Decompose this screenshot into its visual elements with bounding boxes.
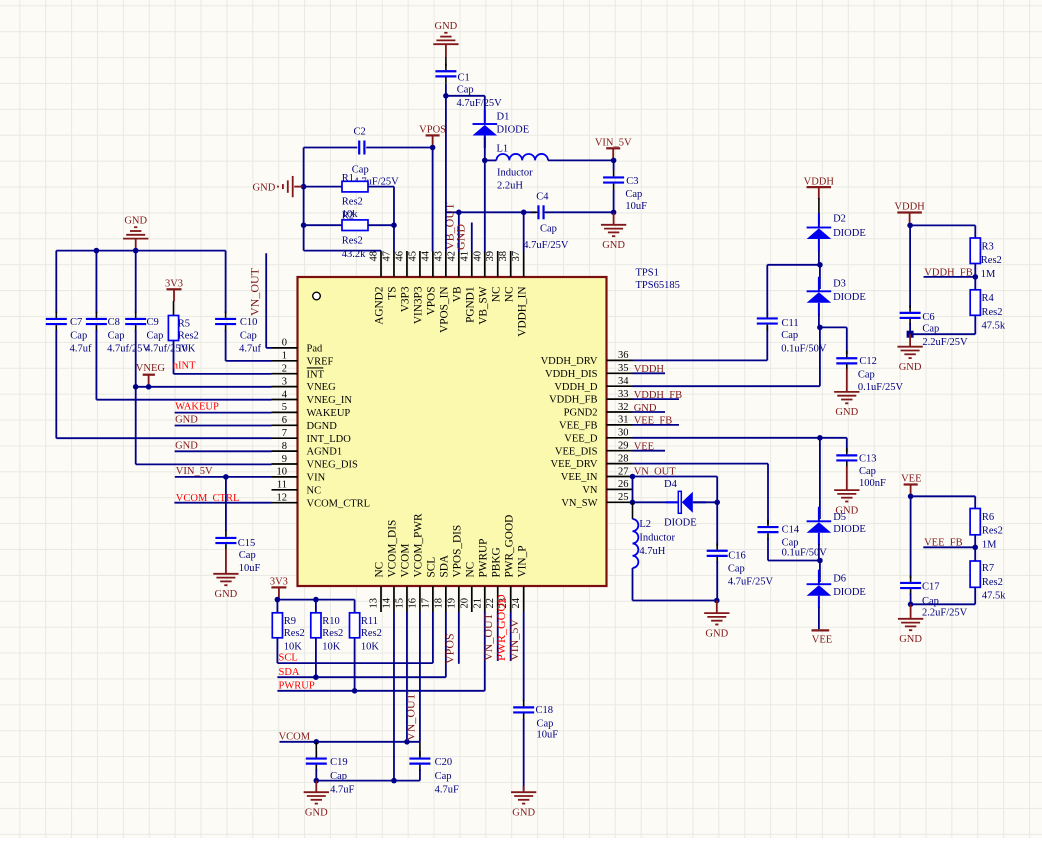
svg-text:VIN_5V: VIN_5V — [507, 619, 521, 661]
label C17 — [922, 582, 940, 593]
IC comment TPS65185 — [636, 280, 680, 291]
svg-text:VDDH_DIS: VDDH_DIS — [545, 369, 598, 380]
svg-text:47.5k: 47.5k — [982, 320, 1006, 331]
capacitor C19 — [306, 751, 327, 771]
svg-text:VB: VB — [451, 287, 463, 303]
wire VIN pin 10 — [175, 476, 272, 478]
label R7 — [982, 563, 994, 574]
label R4 Res2 — [982, 307, 1003, 318]
wire VNEG pin 3 — [136, 386, 272, 388]
IC left pin 2 INT — [272, 364, 325, 381]
IC top pin 46 V3P3 — [394, 251, 411, 312]
svg-text:43.2k: 43.2k — [342, 249, 366, 260]
wire VCOM pin 15 column — [406, 612, 408, 742]
wire C19 top stem — [315, 742, 317, 756]
svg-text:0.1uF/50V: 0.1uF/50V — [782, 547, 828, 558]
wire node to D1 — [446, 96, 485, 121]
ground below C12 — [834, 392, 859, 418]
svg-text:15: 15 — [394, 598, 405, 609]
wire VDDH stub — [633, 372, 666, 374]
diode D3 — [807, 277, 832, 316]
net label VIN_5V vertical — [507, 619, 521, 661]
wire VDDH to D2 — [818, 198, 820, 224]
svg-text:VCOM_PWR: VCOM_PWR — [413, 513, 425, 577]
svg-text:4.7uF/25V: 4.7uF/25V — [457, 98, 503, 109]
svg-text:Cap: Cap — [858, 369, 875, 380]
wire C8 top — [95, 251, 97, 313]
IC right pin 32 PGND2 — [564, 402, 633, 419]
svg-text:GND: GND — [453, 224, 467, 250]
svg-text:17: 17 — [420, 598, 431, 609]
svg-text:Cap: Cap — [147, 330, 164, 341]
svg-text:WAKEUP: WAKEUP — [175, 402, 219, 413]
svg-text:R6: R6 — [982, 512, 994, 523]
svg-text:L2: L2 — [639, 519, 651, 530]
label D2 — [833, 213, 846, 224]
label C7 — [70, 317, 82, 328]
svg-text:VPOS: VPOS — [442, 633, 456, 664]
label R1 10k — [342, 209, 359, 220]
svg-text:R4: R4 — [982, 293, 995, 304]
svg-text:28: 28 — [618, 453, 629, 464]
wire R11 bottom — [354, 638, 356, 691]
svg-text:C1: C1 — [458, 73, 470, 84]
wire D6 anode — [818, 607, 820, 629]
IC right pin 33 VDDH_FB — [549, 389, 632, 406]
label C16 — [728, 550, 746, 561]
label C3 10uF — [625, 201, 647, 212]
wire VIN_P column — [523, 612, 525, 701]
IC left pin 9 VNEG_DIS — [272, 454, 358, 471]
svg-text:C18: C18 — [536, 705, 554, 716]
wire R2 right — [368, 224, 394, 226]
svg-text:4.7uf: 4.7uf — [239, 344, 261, 355]
svg-text:C13: C13 — [859, 454, 877, 465]
IC bottom pin 14 VCOM_DIS — [381, 520, 398, 612]
svg-text:24: 24 — [511, 597, 522, 608]
wire AGND2 pin stub — [380, 250, 382, 253]
wire R10 top — [315, 600, 317, 613]
wire C7 top — [55, 251, 57, 313]
svg-text:4.7uF: 4.7uF — [330, 784, 354, 795]
net label VDDH_FB pin 33 — [634, 390, 682, 401]
label C2 4.7uF/25V — [354, 177, 400, 188]
label R2 — [342, 210, 354, 221]
svg-text:30: 30 — [618, 428, 629, 439]
svg-text:11: 11 — [277, 480, 287, 491]
svg-text:10uF: 10uF — [239, 563, 261, 574]
svg-text:4.7uF/25V: 4.7uF/25V — [728, 577, 774, 588]
net label VN_OUT on PBKG — [481, 612, 495, 661]
svg-text:Res2: Res2 — [342, 197, 363, 208]
capacitor C9 — [125, 312, 146, 332]
IC bottom pin 24 VIN_P — [511, 545, 528, 612]
label C14 0.1uF/50V — [782, 547, 828, 558]
label C16 Cap — [728, 564, 745, 575]
label R3 Res2 — [981, 255, 1002, 266]
label D3 DIODE — [833, 292, 866, 303]
wire PGND1 stub — [471, 223, 473, 252]
svg-text:Cap: Cap — [435, 771, 452, 782]
label C9 — [147, 317, 159, 328]
IC top pin 47 TS — [381, 251, 398, 300]
node C16/L2/ground — [714, 598, 720, 604]
IC bottom pin 13 NC — [369, 562, 386, 612]
net label VB_OUT — [442, 202, 456, 250]
svg-text:VIN_5V: VIN_5V — [595, 138, 632, 149]
label L2 — [639, 519, 651, 530]
svg-text:R3: R3 — [982, 241, 994, 252]
wire C2 left — [304, 147, 358, 149]
label C1 4.7uF/25V — [457, 98, 503, 109]
wire C8 bottom to VNEG_IN — [96, 330, 271, 400]
IC right pin 30 VEE_D — [564, 428, 632, 445]
label D6 DIODE — [833, 587, 866, 598]
IC bottom pin 23 PWR_GOOD — [498, 515, 515, 612]
diode D1 — [473, 110, 498, 149]
wire C15 bottom — [225, 549, 227, 574]
svg-text:nINT: nINT — [173, 360, 196, 371]
capacitor C7 — [46, 312, 67, 332]
svg-text:C11: C11 — [782, 318, 799, 329]
svg-text:C10: C10 — [240, 317, 258, 328]
svg-text:D3: D3 — [833, 278, 846, 289]
svg-text:C6: C6 — [922, 312, 934, 323]
wire C3 to GND node — [613, 190, 615, 212]
label R6 1M — [982, 539, 997, 550]
label C3 Cap — [625, 189, 642, 200]
svg-text:DIODE: DIODE — [833, 587, 866, 598]
wire GND to C1 — [445, 44, 447, 66]
power port VDDH left — [804, 176, 835, 199]
IC bottom pin 20 NC — [459, 562, 476, 612]
svg-text:25: 25 — [618, 492, 629, 503]
label C8 Cap — [108, 330, 125, 341]
wire C7 bottom to INT_LDO — [56, 330, 271, 438]
IC bottom pin 21 PWRUP — [472, 539, 489, 612]
svg-text:SDA: SDA — [438, 554, 450, 577]
svg-text:C20: C20 — [435, 757, 453, 768]
svg-text:VDDH_IN: VDDH_IN — [516, 287, 528, 337]
svg-text:1: 1 — [282, 351, 287, 362]
resistor R4 — [970, 290, 980, 316]
svg-text:2.2uH: 2.2uH — [497, 181, 523, 192]
node L1/VIN_5V/C3 junction — [611, 158, 617, 164]
wire C10 top — [225, 251, 227, 313]
svg-text:VREF: VREF — [307, 356, 334, 367]
node VNEG junction — [146, 384, 152, 390]
node VB rail / VDDH_IN pin — [521, 210, 527, 216]
svg-text:PGND2: PGND2 — [564, 408, 598, 419]
svg-text:47: 47 — [381, 251, 392, 262]
IC right pin 31 VEE_FB — [559, 415, 633, 432]
label D1 — [497, 111, 510, 122]
svg-text:GND: GND — [124, 215, 147, 226]
wire AGND2 left column — [303, 148, 305, 251]
node VCOM/pin15 — [404, 739, 410, 745]
label L1 — [497, 143, 509, 154]
inductor L1 — [496, 154, 548, 160]
svg-text:GND: GND — [835, 407, 858, 418]
label D4 — [664, 479, 678, 490]
svg-text:2.2uF/25V: 2.2uF/25V — [922, 608, 968, 619]
svg-text:Res2: Res2 — [982, 577, 1003, 588]
capacitor C4 — [531, 205, 551, 219]
wire ground stem to bus — [135, 239, 137, 251]
node R2 left junction — [301, 222, 307, 228]
power port 3V3 lower — [270, 577, 288, 600]
wire 3V3 to R5 — [173, 301, 175, 316]
svg-text:4.7uH: 4.7uH — [639, 546, 665, 557]
svg-text:Res2: Res2 — [982, 307, 1003, 318]
svg-text:DIODE: DIODE — [664, 517, 697, 528]
power port VPOS — [419, 125, 446, 148]
capacitor C18 — [513, 700, 534, 720]
label D1 DIODE — [497, 125, 530, 136]
IC right pin 25 VN_SW — [561, 492, 632, 509]
node R1 left junction — [301, 184, 307, 190]
svg-text:26: 26 — [618, 479, 629, 490]
label R5 10K — [177, 344, 196, 355]
svg-text:0: 0 — [282, 338, 287, 349]
IC top pin 41 PGND1 — [459, 251, 476, 323]
ground below C18 — [511, 792, 536, 818]
svg-text:29: 29 — [618, 441, 629, 452]
svg-text:47.5k: 47.5k — [982, 591, 1006, 602]
svg-text:GND: GND — [512, 808, 535, 819]
svg-text:C16: C16 — [728, 550, 746, 561]
svg-text:NC: NC — [464, 562, 476, 578]
label C6 Cap — [922, 323, 939, 334]
svg-text:21: 21 — [472, 598, 483, 609]
svg-text:GND: GND — [602, 240, 625, 251]
inductor L2 — [633, 519, 639, 568]
svg-text:DIODE: DIODE — [833, 524, 866, 535]
svg-text:4.7uf/25V: 4.7uf/25V — [107, 344, 150, 355]
svg-text:DIODE: DIODE — [833, 228, 866, 239]
wire R6 bottom — [974, 535, 976, 548]
svg-text:DGND: DGND — [307, 421, 338, 432]
svg-text:Cap: Cap — [108, 330, 125, 341]
capacitor C2 — [359, 141, 364, 155]
svg-text:R7: R7 — [982, 563, 994, 574]
svg-text:SDA: SDA — [279, 667, 300, 678]
label R1 — [342, 173, 354, 184]
diode D4 — [666, 491, 706, 513]
svg-text:6: 6 — [282, 415, 287, 426]
node C6/R4/ground — [907, 331, 914, 338]
label C20 4.7uF — [435, 784, 459, 795]
svg-text:VIN_5V: VIN_5V — [176, 466, 213, 477]
IC right pin 34 VDDH_D — [554, 376, 632, 393]
svg-text:TS: TS — [387, 287, 399, 300]
svg-text:7: 7 — [282, 428, 287, 439]
svg-text:Cap: Cap — [239, 550, 256, 561]
wire VB pin stub — [458, 212, 460, 251]
svg-text:Cap: Cap — [537, 719, 554, 730]
power port VDDH right — [894, 202, 925, 225]
wire C6 ground stem — [909, 334, 911, 346]
label D5 — [833, 512, 846, 523]
wire D5 anode — [818, 544, 820, 561]
wire SCL — [277, 612, 432, 663]
node C1/VPOS_IN junction — [443, 93, 449, 99]
label C15 10uF — [239, 563, 261, 574]
wire Pad stub — [266, 253, 271, 348]
wire C9 bottom column — [136, 330, 272, 464]
wire L2 top stem — [632, 502, 634, 519]
svg-text:37: 37 — [511, 251, 522, 262]
label C18 Cap — [537, 719, 554, 730]
node R6/R7/VEE_FB — [972, 545, 978, 551]
svg-text:VN_OUT: VN_OUT — [248, 267, 262, 316]
svg-text:40: 40 — [472, 251, 483, 262]
wire C16 bottom — [716, 561, 718, 601]
svg-text:10uF: 10uF — [537, 730, 559, 741]
svg-text:14: 14 — [381, 597, 392, 608]
svg-text:VN_OUT: VN_OUT — [481, 612, 495, 661]
svg-text:10K: 10K — [284, 641, 303, 652]
label R11 — [361, 616, 378, 627]
node PWRUP/R11 junction — [352, 688, 358, 694]
wire C19 ground stem — [315, 781, 317, 792]
IC left pin 8 AGND1 — [272, 441, 343, 458]
svg-text:GND: GND — [175, 440, 198, 451]
label R4 47.5k — [982, 320, 1006, 331]
wire R5 bottom to INT — [174, 341, 272, 374]
label L2 Inductor — [639, 533, 675, 544]
capacitor C1 — [435, 64, 456, 84]
wire VEE_FB stub — [633, 424, 680, 426]
net label VCOM_CTRL — [176, 493, 240, 504]
svg-text:PWR_GOOD: PWR_GOOD — [494, 594, 508, 661]
node VCOM/C19 — [314, 739, 320, 745]
svg-text:VPOS: VPOS — [425, 287, 437, 316]
wire C12 bottom — [846, 369, 848, 392]
label R11 10K — [361, 641, 380, 652]
IC right pin 28 VEE_DRV — [551, 453, 633, 470]
svg-text:INT_LDO: INT_LDO — [307, 434, 352, 445]
svg-text:8: 8 — [282, 441, 287, 452]
svg-text:38: 38 — [498, 251, 509, 262]
wire PWRUP — [277, 612, 484, 691]
svg-text:VPOS: VPOS — [419, 125, 446, 136]
node VDDH/R3/C6 — [907, 223, 913, 229]
svg-text:R9: R9 — [284, 616, 296, 627]
label R6 — [982, 512, 994, 523]
svg-text:TPS1: TPS1 — [636, 268, 659, 279]
IC left pin 1 VREF — [272, 351, 334, 368]
IC top pin 40 VB_SW — [472, 251, 489, 325]
wire VEE_DRV pin 28 — [633, 464, 769, 524]
svg-text:C4: C4 — [536, 191, 549, 202]
svg-text:Cap: Cap — [859, 466, 876, 477]
ground below C19 — [304, 792, 329, 818]
svg-text:Cap: Cap — [922, 323, 939, 334]
wire VEE stub — [633, 450, 666, 452]
svg-text:Cap: Cap — [70, 330, 87, 341]
svg-text:VCOM_DIS: VCOM_DIS — [387, 520, 399, 578]
wire R4 top — [974, 277, 976, 290]
label C13 — [859, 454, 877, 465]
label D4 DIODE — [664, 517, 697, 528]
svg-text:VDDH: VDDH — [894, 202, 925, 213]
svg-text:R11: R11 — [361, 616, 378, 627]
IC left pin 6 DGND — [272, 415, 338, 432]
svg-text:PWRUP: PWRUP — [477, 539, 489, 578]
label C16 4.7uF/25V — [728, 577, 774, 588]
wire pin27 corner down — [716, 477, 718, 503]
svg-text:GND: GND — [705, 628, 728, 639]
power port VNEG — [136, 363, 166, 387]
node bus/C9 — [133, 248, 139, 254]
wire node to C12 — [820, 327, 847, 354]
svg-text:PBKG: PBKG — [490, 547, 502, 577]
svg-text:TPS65185: TPS65185 — [636, 280, 680, 291]
svg-text:39: 39 — [485, 251, 496, 262]
svg-text:Cap: Cap — [781, 330, 798, 341]
label D2 DIODE — [833, 228, 866, 239]
node R2/TS junction — [391, 222, 397, 228]
svg-text:VEE_FB: VEE_FB — [559, 421, 598, 432]
node D2/D3 junction — [817, 262, 823, 268]
wire C9 top — [135, 251, 137, 313]
label C4 4.7uF/25V — [523, 240, 569, 251]
label D6 — [833, 574, 846, 585]
svg-text:D2: D2 — [833, 213, 846, 224]
label D5 DIODE — [833, 524, 866, 535]
node C17/R7/ground — [908, 602, 914, 608]
svg-text:5: 5 — [282, 402, 287, 413]
svg-text:AGND2: AGND2 — [374, 286, 386, 325]
svg-text:34: 34 — [618, 376, 629, 387]
label R2 43.2k — [342, 249, 366, 260]
net label PWR_GOOD vertical — [494, 594, 508, 661]
net label VDDH pin 35 — [634, 364, 665, 375]
label R9 Res2 — [284, 628, 305, 639]
wire pins 25-27 tie — [632, 477, 634, 503]
svg-text:44: 44 — [420, 250, 431, 261]
label C4 — [536, 191, 549, 202]
svg-text:INT: INT — [307, 369, 325, 380]
node D3/VDDH_D junction — [817, 325, 823, 331]
wire VCOM rail — [280, 741, 420, 743]
node SDA/R10 junction — [313, 674, 319, 680]
svg-text:VN_SW: VN_SW — [561, 498, 597, 509]
wire C17 bottom — [910, 593, 912, 604]
svg-text:36: 36 — [618, 350, 629, 361]
wire R1 left — [304, 186, 342, 188]
svg-text:Cap: Cap — [922, 596, 939, 607]
wire AGND2 horizontal — [304, 250, 381, 252]
svg-text:SCL: SCL — [279, 653, 298, 664]
wire AGND1 pin 8 — [175, 450, 272, 452]
capacitor C17 — [900, 576, 921, 596]
wire C16 top — [716, 502, 718, 546]
svg-text:45: 45 — [407, 251, 418, 262]
svg-text:GND: GND — [215, 589, 238, 600]
svg-text:Inductor: Inductor — [639, 533, 675, 544]
svg-text:16: 16 — [407, 598, 418, 609]
IC designator TPS1 — [636, 268, 659, 279]
svg-text:VPOS_IN: VPOS_IN — [438, 287, 450, 333]
svg-text:NC: NC — [374, 562, 386, 578]
ground below C6 — [897, 347, 922, 373]
svg-text:Cap: Cap — [352, 165, 369, 176]
IC bottom pin 19 VPOS_DIS — [446, 525, 463, 612]
svg-text:D6: D6 — [833, 574, 846, 585]
svg-text:C17: C17 — [922, 582, 940, 593]
